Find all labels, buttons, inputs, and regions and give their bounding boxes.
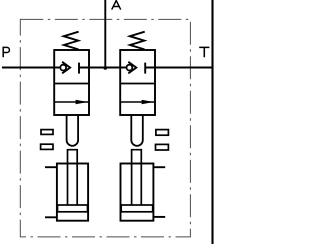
cylinder C1 barrel (57, 164, 88, 221)
cylinder C1 top port stub (45, 166, 58, 168)
node A junction dot (104, 66, 108, 70)
valve V2 check ball (126, 65, 132, 71)
valve V1 closed port bar (78, 63, 80, 74)
cylinder C2 bottom port stub (153, 216, 165, 218)
wire P to valve V1 (2, 67, 60, 69)
valve V1 check ball (60, 65, 66, 71)
valve V2 body (120, 50, 155, 115)
enclosure boundary (manifold block, dash-dot) (20, 19, 190, 237)
wire A vertical (104, 0, 106, 68)
indicator block L1 (41, 130, 53, 135)
cylinder C1 bottom port stub (45, 216, 58, 218)
valve V2 spring (130, 32, 145, 50)
cylinder C2 barrel (121, 164, 154, 221)
valve V2 plunger (rounded poppet) (131, 115, 143, 146)
valve V1 position divider (54, 83, 89, 85)
drawing frame right edge (211, 0, 213, 244)
valve V1 flow path arrow (54, 101, 89, 103)
indicator block R1 (156, 130, 169, 136)
indicator block L2 (41, 144, 53, 149)
port P label (3, 47, 9, 57)
wire V2 to T (145, 67, 212, 69)
port T label (199, 47, 209, 57)
cylinder C1 piston rod (68, 150, 78, 206)
cylinder C2 top port stub (153, 166, 165, 168)
valve V2 closed port bar (144, 63, 146, 74)
cylinder C2 piston rod (132, 150, 142, 206)
valve V1 plunger (rounded poppet) (67, 115, 79, 146)
indicator block R2 (156, 144, 169, 150)
valve V1 spring (64, 32, 79, 50)
valve V2 position divider (120, 83, 155, 85)
valve V2 check seat (128, 62, 136, 74)
cylinder C2 piston (121, 205, 153, 212)
cylinder C1 piston (58, 205, 88, 212)
valve V1 check seat (62, 62, 70, 74)
wire V1 to V2 through node A junction (79, 67, 126, 69)
valve V2 flow path arrow (120, 101, 155, 103)
valve V1 body (54, 50, 89, 115)
node A label (112, 1, 121, 10)
